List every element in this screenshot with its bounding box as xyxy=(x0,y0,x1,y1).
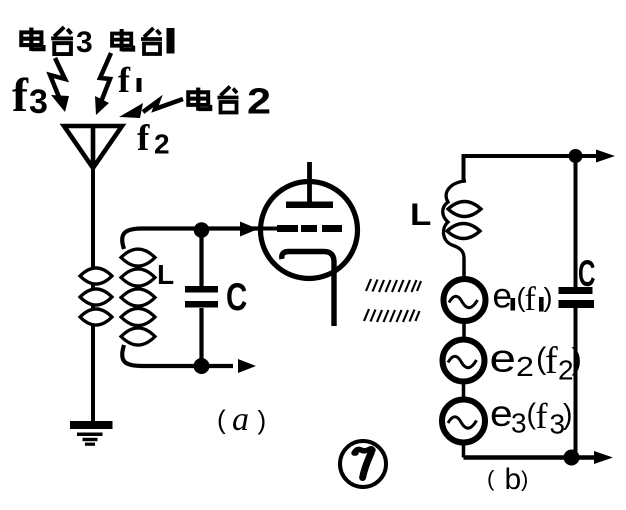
svg-text:f: f xyxy=(536,396,548,436)
svg-text:e: e xyxy=(490,394,513,435)
svg-text:b: b xyxy=(505,463,522,496)
svg-text:): ) xyxy=(544,283,553,313)
svg-text:(: ( xyxy=(217,405,226,435)
svg-text:(: ( xyxy=(487,466,495,491)
svg-text:C: C xyxy=(578,253,595,295)
svg-text:L: L xyxy=(157,259,174,290)
svg-text:): ) xyxy=(521,467,528,492)
svg-text:2: 2 xyxy=(516,352,534,383)
svg-text:L: L xyxy=(410,198,431,233)
svg-text:3: 3 xyxy=(29,83,48,121)
svg-text:f: f xyxy=(137,118,150,159)
svg-text:e: e xyxy=(490,337,516,380)
svg-text:): ) xyxy=(563,399,573,431)
svg-text:): ) xyxy=(258,405,267,435)
svg-text:f: f xyxy=(545,340,558,382)
svg-text:C: C xyxy=(226,276,247,319)
svg-text:f: f xyxy=(118,60,131,100)
svg-text:f: f xyxy=(12,69,29,122)
svg-text:): ) xyxy=(572,341,582,376)
svg-text:2: 2 xyxy=(247,82,271,122)
svg-text:2: 2 xyxy=(154,129,170,160)
svg-text:e: e xyxy=(493,277,512,316)
svg-text:3: 3 xyxy=(511,407,527,438)
svg-text:f: f xyxy=(525,281,537,318)
svg-text:a: a xyxy=(232,401,249,438)
svg-text:3: 3 xyxy=(76,26,93,59)
